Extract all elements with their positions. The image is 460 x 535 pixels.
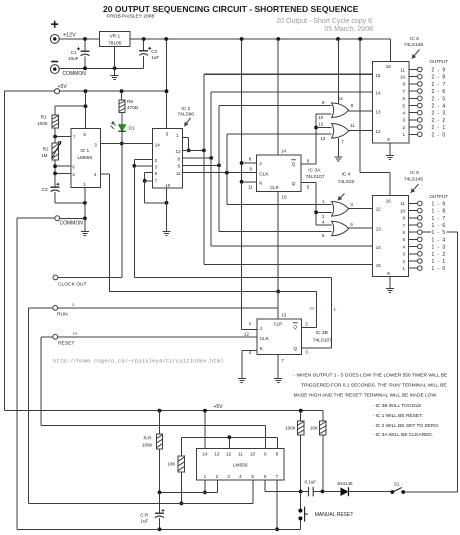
svg-text:100K: 100K	[142, 442, 153, 447]
wire QB to OR gate1 input 9	[219, 105, 332, 107]
wire to IC3A J pin8	[242, 162, 257, 164]
svg-text:2 - 4: 2 - 4	[432, 104, 447, 110]
node C1 bottom	[83, 66, 87, 70]
node R1/pin8	[84, 104, 88, 108]
svg-text:Q: Q	[293, 324, 297, 330]
svg-text:16: 16	[386, 64, 392, 69]
wire Qbar to gate1 in10	[316, 113, 332, 115]
wire RC node line	[160, 491, 218, 493]
node gate3 in2	[314, 210, 318, 214]
wire common2 circle to pin1 node	[60, 217, 85, 219]
node x167 rail	[164, 37, 168, 41]
svg-text:10: 10	[282, 195, 288, 200]
svg-text:2 - 6: 2 - 6	[432, 89, 447, 95]
svg-text:14: 14	[155, 143, 161, 148]
svg-text:15: 15	[376, 263, 382, 268]
wire QC to IC6 pin14	[211, 91, 372, 93]
wire IC1 pin4 reset	[101, 173, 110, 175]
svg-text:10: 10	[400, 208, 406, 213]
svg-text:13: 13	[320, 136, 326, 141]
svg-text:OUTPUT: OUTPUT	[429, 59, 448, 64]
svg-text:74LS145: 74LS145	[404, 176, 424, 182]
svg-text:1 - 4: 1 - 4	[432, 237, 447, 243]
svg-text:http://home.cogeco.ca/~rpaisle: http://home.cogeco.ca/~rpaisley4/Circuit…	[53, 358, 224, 365]
wire to IC3A K pin11	[242, 181, 257, 183]
wire +5V left to bus corner	[4, 90, 54, 92]
node R1 bottom / R2 top / pin7	[53, 135, 57, 139]
node C-R/common	[158, 527, 162, 531]
svg-text:12: 12	[318, 121, 324, 126]
flip-flop IC3B 74LS107 box	[257, 319, 302, 354]
capacitor C2	[143, 39, 145, 50]
or-gate IC4c (pins 1,2 -> 3)	[332, 202, 349, 217]
ground below VR1	[114, 68, 116, 75]
decoder IC5 74LS145 box	[373, 196, 409, 277]
svg-text:74LS107: 74LS107	[313, 337, 333, 343]
wire pin12 drop	[228, 437, 230, 448]
wire output 1-5 feedback right	[422, 231, 431, 233]
resistor R1	[54, 106, 56, 115]
terminal RUN	[28, 307, 52, 309]
node VR1 gnd	[113, 66, 117, 70]
svg-text:1 - 8: 1 - 8	[432, 209, 447, 215]
svg-text:+5V: +5V	[58, 84, 68, 90]
svg-text:2 - 3: 2 - 3	[432, 111, 447, 117]
wire +12V to VR1	[59, 38, 99, 40]
svg-text:- IC 3A WILL BE CLEARED.: - IC 3A WILL BE CLEARED.	[373, 432, 434, 438]
wire LM556 pin5 out A to RUN line	[252, 480, 254, 503]
resistor R-R	[159, 411, 161, 434]
node IC3A J	[240, 161, 244, 165]
wire Q to gate3 in2	[316, 211, 332, 213]
svg-text:LM555: LM555	[77, 155, 92, 161]
wire trig line y437	[181, 436, 277, 438]
terminal COMMON 2	[55, 216, 60, 221]
flip-flop IC3A 74LS107 box	[256, 155, 300, 191]
IC6 ground	[389, 143, 391, 156]
svg-text:12: 12	[376, 129, 382, 134]
svg-text:13: 13	[281, 312, 287, 317]
node R-R top	[158, 409, 162, 413]
wire R0 down to Q line	[133, 166, 135, 278]
svg-text:RESET: RESET	[58, 341, 74, 347]
svg-text:MANUAL RESET: MANUAL RESET	[315, 512, 354, 518]
terminal +5V	[54, 89, 59, 94]
svg-text:13: 13	[376, 110, 382, 115]
ground IC4	[334, 157, 342, 161]
svg-text:1 - 6: 1 - 6	[432, 223, 447, 229]
wire R9 to gnd line	[144, 181, 146, 203]
wire 555 pin 8 vcc	[85, 91, 87, 129]
svg-text:1 - 1: 1 - 1	[432, 259, 447, 265]
wire IC3B CLR from reset node	[277, 292, 279, 320]
wire QB pin9 row	[182, 164, 219, 166]
wire x167 from top rail to +5 rail to IC2 pin5	[166, 39, 168, 129]
decoder IC6 74LS145 box	[373, 61, 410, 143]
svg-text:IC 6: IC 6	[410, 36, 419, 42]
wire to IC1 pin2	[55, 172, 71, 174]
wire clock node to IC2 pin14	[122, 143, 153, 145]
wire Q to gate4 in4	[316, 224, 332, 226]
svg-text:S1: S1	[394, 482, 400, 487]
svg-text:0.1uF: 0.1uF	[305, 479, 317, 484]
svg-text:14: 14	[376, 245, 382, 250]
node R8 top	[120, 89, 124, 93]
svg-text:11: 11	[400, 67, 405, 72]
svg-text:2 - 9: 2 - 9	[432, 68, 447, 74]
wire common2 left to bus x17	[17, 217, 55, 219]
node gate2 in12	[314, 126, 318, 130]
wire clock node down to CLOCK OUT	[121, 144, 123, 278]
svg-text:1 - 9: 1 - 9	[432, 201, 447, 207]
svg-text:2 - 8: 2 - 8	[432, 75, 447, 81]
counter IC2 74LS90 box	[153, 129, 183, 188]
wire QD vertical bus x227	[226, 134, 228, 205]
node R9	[143, 179, 147, 183]
svg-text:OUTPUT: OUTPUT	[429, 194, 448, 199]
node C2 top	[142, 37, 146, 41]
svg-text:14: 14	[281, 149, 287, 154]
or-gate IC4d (pins 4,5 -> 6)	[332, 221, 349, 236]
node IC3A K	[240, 180, 244, 184]
node trig A/100K	[299, 490, 303, 494]
svg-text:H: H	[310, 306, 314, 312]
svg-text:+5V: +5V	[214, 404, 224, 410]
IC5 pointer arrow	[411, 184, 419, 193]
wire pin14 drop	[204, 411, 206, 449]
svg-text:2 - 0: 2 - 0	[432, 132, 447, 138]
wire gate2 out to IC6 pin12	[349, 129, 373, 131]
svg-text:CLK: CLK	[260, 336, 270, 342]
svg-text:1 - 2: 1 - 2	[432, 252, 447, 258]
wire 10K-2 bottom to RUN line	[180, 472, 182, 504]
wire QA to IC5 pin15	[204, 263, 373, 265]
wire IC3B J from +5 bus	[242, 328, 257, 330]
svg-text:CLK: CLK	[259, 171, 269, 177]
svg-text:11: 11	[176, 171, 181, 176]
svg-text:10uF: 10uF	[68, 56, 79, 61]
terminal +12V	[50, 35, 59, 44]
node IC5 vcc x360	[358, 37, 362, 41]
node pin10 gnd	[165, 201, 169, 205]
svg-text:VR 1: VR 1	[109, 34, 120, 40]
node 10K/diode	[321, 490, 325, 494]
svg-text:1N4148: 1N4148	[337, 481, 353, 486]
svg-text:1 - 5: 1 - 5	[432, 230, 447, 236]
terminal CLOCK OUT	[53, 275, 58, 280]
wire QA vertical bus x204	[203, 74, 205, 264]
wire VR1 output rail +5V (top rail)	[130, 38, 391, 40]
wire C3 bottom to IC1 pin1	[54, 192, 56, 203]
svg-text:11: 11	[248, 185, 253, 190]
svg-text:1 - 3: 1 - 3	[432, 245, 447, 251]
svg-text:IC 4: IC 4	[342, 172, 351, 178]
terminal COMMON	[50, 65, 59, 74]
capacitor C1	[84, 39, 86, 51]
svg-text:2 - 7: 2 - 7	[432, 82, 447, 88]
svg-text:16: 16	[386, 198, 392, 203]
svg-text:COMMON: COMMON	[63, 71, 87, 77]
svg-text:+12V: +12V	[63, 32, 76, 38]
svg-text:L: L	[72, 302, 75, 308]
wire R1 top to 555 pin8 line	[55, 105, 85, 107]
wire IC2 pin1 jog to QA	[182, 136, 188, 138]
regulator VR1	[100, 32, 130, 47]
node pin2	[53, 172, 57, 176]
wire LED cathode to clock node	[121, 131, 123, 143]
node pin7/common	[275, 527, 279, 531]
ground below IC2	[163, 232, 171, 236]
node R0	[132, 164, 136, 168]
wire IC1 pin1 down	[84, 188, 86, 219]
svg-text:12: 12	[376, 207, 382, 212]
wire to 10K-2 top	[180, 437, 182, 456]
wire diode to S1	[349, 491, 393, 493]
svg-text:11: 11	[238, 451, 243, 456]
node IC3A vcc x278	[276, 37, 280, 41]
wire 555 pin3 to clock node	[101, 143, 122, 145]
svg-text:10: 10	[250, 451, 256, 456]
IC5 ground	[389, 277, 391, 289]
resistor 10K (left of LM556)	[178, 456, 184, 472]
wire VR1 center pin	[114, 46, 116, 68]
svg-text:1 - 0: 1 - 0	[432, 266, 447, 272]
svg-text:20 Output - Short Cycle copy 6: 20 Output - Short Cycle copy 6	[276, 18, 372, 25]
svg-text:11: 11	[400, 201, 405, 206]
svg-text:CLOCK OUT: CLOCK OUT	[58, 282, 87, 288]
or-gate IC4a (pins 9,10 -> 8)	[332, 103, 349, 118]
svg-text:10: 10	[400, 75, 406, 80]
resistor 100K (bottom)	[300, 411, 302, 421]
resistor R8	[121, 91, 123, 100]
svg-text:1uF: 1uF	[141, 518, 149, 523]
node pin12 tap	[227, 435, 231, 439]
svg-text:100K: 100K	[37, 121, 49, 126]
ground IC3B pin7	[274, 379, 282, 383]
svg-text:2 - 5: 2 - 5	[432, 96, 447, 102]
svg-text:LM556: LM556	[233, 463, 248, 469]
wire COMMON rail	[59, 67, 144, 69]
wire QC vertical bus x211	[210, 92, 212, 246]
svg-text:74LS90: 74LS90	[178, 111, 195, 117]
svg-text:R8: R8	[127, 99, 133, 104]
svg-text:R-R: R-R	[144, 435, 153, 440]
svg-text:74LS145: 74LS145	[404, 42, 424, 48]
wire IC3A vcc pin14 from top rail	[277, 39, 279, 155]
op-amp IC1 LM555 box	[71, 129, 101, 188]
wire IC4 vcc pin14	[337, 39, 339, 104]
wire to diode	[323, 491, 341, 493]
node IC3A pin14 feed	[240, 37, 244, 41]
wire RUN to IC3B CLR tee	[58, 307, 279, 309]
wire 100K bottom	[300, 435, 302, 492]
IC6 pointer arrow	[412, 50, 420, 59]
wire QC pin8 row	[182, 157, 211, 159]
svg-text:IC 1: IC 1	[80, 148, 89, 154]
node CLR net	[276, 290, 280, 294]
svg-text:14: 14	[338, 96, 344, 101]
LED arrows	[112, 122, 115, 125]
node RUN/10K	[180, 502, 184, 506]
node pin6	[53, 164, 57, 168]
svg-text:TRIGGERED FOR 0.1 SECONDS. TH: TRIGGERED FOR 0.1 SECONDS. THE 'RUN' TER…	[301, 382, 447, 388]
wire +5V rail to IC2 vcc	[60, 90, 167, 92]
svg-text:11: 11	[350, 123, 355, 128]
wire gate3 out to IC5 pin12	[349, 207, 373, 209]
wire pin8 drop	[277, 437, 279, 448]
svg-text:©ROB PAISLEY 2008: ©ROB PAISLEY 2008	[107, 12, 155, 19]
wire IC3B Qbar pin2 to reset net	[302, 326, 317, 328]
wire RESET to IC3B CLK pin12	[58, 336, 257, 338]
svg-text:R2: R2	[43, 147, 49, 152]
wire +5V bus left vertical x4	[3, 91, 5, 411]
svg-text:2 - 2: 2 - 2	[432, 118, 447, 124]
LED D1	[119, 125, 126, 131]
wire IC2 pin10 down to ground	[166, 188, 168, 232]
svg-text:12: 12	[175, 149, 181, 154]
svg-text:Q: Q	[293, 346, 297, 352]
svg-text:Q: Q	[292, 181, 296, 187]
wire IC3B Q pin3	[302, 347, 332, 349]
svg-text:IC 5: IC 5	[410, 170, 419, 176]
wire LM556 pin7 gnd to common rail	[276, 480, 278, 529]
svg-text:100K: 100K	[285, 425, 296, 430]
node disch A	[203, 491, 207, 495]
IC2 pointer arrow	[184, 118, 190, 127]
terminal RESET	[41, 336, 53, 338]
node QD bus	[225, 171, 229, 175]
wire +5 corner down to 10K	[322, 411, 324, 421]
wire IC3B pin7 gnd	[277, 355, 279, 379]
svg-text:20 OUTPUT SEQUENCING CIRCUIT -: 20 OUTPUT SEQUENCING CIRCUIT - SHORTENED…	[103, 4, 359, 14]
wire C-R bottom to common rail	[159, 518, 161, 530]
switch S1	[390, 490, 394, 494]
node 100K top	[299, 409, 303, 413]
svg-text:C1: C1	[71, 50, 77, 55]
node IC4 vcc x338	[336, 37, 340, 41]
svg-text:- WHEN OUTPUT 1 - 5 GOES LOW T: - WHEN OUTPUT 1 - 5 GOES LOW THE LOWER 5…	[294, 372, 449, 378]
svg-text:74LS107: 74LS107	[305, 174, 325, 180]
wire Qbar to gate2 in12	[316, 127, 332, 129]
push-button MANUAL RESET	[299, 492, 301, 510]
timer LM556 box	[197, 448, 285, 480]
wire QA pin12 row	[182, 149, 204, 151]
wire to IC1 pin6	[55, 165, 71, 167]
wire QB to OR gate4 input 5	[219, 231, 332, 233]
svg-text:IC 3A: IC 3A	[308, 168, 321, 174]
svg-text:C-R: C-R	[140, 513, 149, 518]
wire common bus x17 down	[16, 218, 18, 529]
wire LM556 pin1 down	[204, 480, 206, 492]
wire top rail corner down to IC6 pin16	[390, 39, 392, 61]
svg-text:12: 12	[244, 331, 250, 336]
capacitor C-R	[159, 492, 161, 512]
node pin1/gnd	[83, 201, 87, 205]
wire bottom common rail	[17, 528, 300, 530]
svg-text:- IC 3B WILL TOGGLE: - IC 3B WILL TOGGLE	[373, 403, 423, 409]
node LM556 pin14 vcc	[203, 409, 207, 413]
potentiometer R2	[52, 143, 58, 160]
node pin1/QA	[187, 149, 191, 153]
svg-text:1uF: 1uF	[151, 55, 159, 60]
wire QD to OR gate2 input 13	[227, 133, 332, 135]
node 555 pin8 feed	[84, 89, 88, 93]
svg-text:12: 12	[226, 451, 232, 456]
node QA bus	[202, 149, 206, 153]
svg-text:10K: 10K	[167, 462, 175, 467]
wire QC to IC5 pin14	[211, 245, 372, 247]
diode 1N4148	[341, 487, 349, 496]
node R-R/C-R	[158, 491, 162, 495]
wire Q net (L) from IC2 reset pins to IC3B Q	[134, 276, 331, 278]
svg-text:10: 10	[318, 115, 324, 120]
resistor 10K (bottom right)	[320, 421, 326, 435]
svg-text:13: 13	[376, 227, 382, 232]
svg-text:RUN: RUN	[57, 311, 68, 317]
svg-text:14: 14	[202, 451, 208, 456]
wire feedback to S1	[403, 491, 457, 493]
wire CLOCK OUT segment	[58, 276, 122, 278]
svg-text:15: 15	[376, 73, 382, 78]
capacitor C3	[54, 176, 56, 187]
wire RESET line to LM556 pin9	[41, 425, 266, 427]
svg-text:1 - 7: 1 - 7	[432, 216, 447, 222]
wire button bottom to common rail	[299, 520, 301, 529]
node C1 top	[83, 37, 87, 41]
ground IC3B K	[238, 379, 246, 383]
svg-text:CLR: CLR	[270, 185, 279, 190]
wire IC1 pin7 to R1/R2 junction	[55, 136, 71, 138]
svg-text:IC 2: IC 2	[181, 106, 190, 112]
svg-text:COMMON: COMMON	[60, 220, 84, 226]
svg-text:L: L	[334, 306, 337, 312]
wire 10K bottom	[322, 435, 324, 492]
wire reset net y291	[110, 291, 317, 293]
svg-text:C3: C3	[42, 187, 48, 192]
node QC bus	[209, 156, 213, 160]
svg-text:Q: Q	[292, 161, 296, 167]
node clock (555 out / IC2 clk / clock-out)	[120, 142, 124, 146]
wire +5 route to IC5 pin16	[359, 39, 361, 173]
svg-text:- IC 2 WILL BE SET TO ZERO.: - IC 2 WILL BE SET TO ZERO.	[373, 423, 440, 429]
wire R8 to LED D1	[121, 113, 123, 125]
svg-text:470Ω: 470Ω	[127, 105, 139, 110]
wire IC3B K to ground	[242, 349, 257, 351]
wire R-R bottom to timing node	[159, 449, 161, 493]
wire reset net to IC3B Qbar	[316, 292, 318, 328]
wire gate4 out to IC5 pin13	[349, 227, 373, 229]
svg-text:CLR: CLR	[273, 322, 282, 327]
or-gate IC4b (pins 12,13 -> 11)	[332, 124, 349, 139]
node QB bus	[217, 163, 221, 167]
svg-text:IC 3B: IC 3B	[316, 330, 328, 336]
wire LM556 pin2 drop	[216, 480, 218, 492]
node common2	[83, 217, 87, 221]
svg-text:78L05: 78L05	[108, 40, 122, 46]
wire R2 bottom to pins 6/2	[54, 160, 56, 176]
wire +5V bottom rail	[4, 410, 323, 412]
wire IC2 R0 pins 2,3	[134, 159, 152, 161]
svg-text:R1: R1	[41, 115, 47, 120]
wire QD pin11 row to IC3A clk	[182, 172, 256, 174]
IC4 pointer arrow	[338, 194, 345, 201]
svg-text:MADE HIGH AND THE 'RESET' TERM: MADE HIGH AND THE 'RESET' TERMINAL WILL …	[294, 392, 438, 398]
wire QB vertical bus x219	[218, 106, 220, 232]
svg-text:14: 14	[376, 90, 382, 95]
wire QA to IC6 pin15	[204, 73, 373, 75]
wire feedback bus right vertical	[456, 232, 458, 492]
svg-text:05 March, 2008: 05 March, 2008	[324, 26, 373, 33]
